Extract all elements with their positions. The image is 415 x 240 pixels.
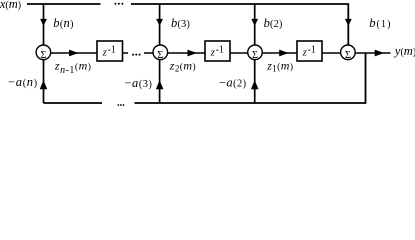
svg-text:x(m): x(m)	[0, 0, 21, 11]
svg-text:z: z	[302, 48, 307, 59]
delay block D1 z^-1	[97, 41, 123, 61]
svg-text:z1(m): z1(m)	[266, 59, 293, 74]
wire b(3) branch vertical	[159, 4, 161, 45]
wire feedback vertical into U1	[43, 60, 45, 103]
arrowhead right on wire U1-D1	[69, 50, 79, 57]
svg-text:Σ: Σ	[157, 50, 163, 61]
arrowhead b(3) down	[156, 19, 163, 26]
svg-text:Σ: Σ	[40, 50, 46, 61]
wire D1 output stub	[123, 52, 129, 54]
svg-text:z2(m): z2(m)	[169, 59, 196, 74]
arrowhead -a(n) up	[40, 80, 48, 89]
svg-text:z: z	[210, 48, 215, 59]
arrowhead right on wire U2-D2	[188, 50, 198, 57]
wire D3 to summer U4	[322, 52, 341, 54]
delay block D2 z^-1	[205, 41, 230, 61]
arrowhead b(n) down	[40, 19, 47, 26]
summer U3 (sigma)	[248, 45, 263, 60]
arrowhead -a(2) up	[251, 80, 259, 89]
wire top horizontal segment left	[27, 3, 101, 5]
arrowhead right on output wire	[375, 50, 385, 57]
svg-text:b(2): b(2)	[264, 16, 283, 30]
wire U4 to output y(m)	[355, 52, 390, 54]
wire into summer U2	[144, 52, 153, 54]
arrowhead b(1) down	[345, 19, 352, 26]
svg-text:−a(2): −a(2)	[219, 76, 247, 90]
svg-text:Σ: Σ	[252, 50, 258, 61]
middle ellipsis dots	[132, 54, 141, 56]
svg-text:−a(n): −a(n)	[8, 75, 38, 89]
arrowhead -a(3) up	[156, 80, 164, 89]
wire top horizontal segment right with corner into b(1) branch	[131, 4, 348, 45]
svg-text:Σ: Σ	[345, 50, 351, 61]
summer U1 (sigma)	[36, 45, 51, 60]
arrowhead right on wire U3-D3	[279, 50, 289, 57]
svg-text:y(m): y(m)	[393, 44, 415, 58]
wire U3 to delay D3	[262, 52, 297, 54]
wire b(n) branch vertical	[43, 4, 45, 45]
wire U1 to delay D1	[51, 52, 97, 54]
wire bottom ellipsis dots	[117, 104, 124, 106]
svg-text:-1: -1	[308, 45, 316, 56]
wire D2 to summer U3	[230, 52, 248, 54]
svg-text:b(n): b(n)	[53, 16, 73, 30]
svg-text:−a(3): −a(3)	[124, 76, 152, 90]
wire feedback vertical into U3	[254, 60, 256, 103]
svg-text:-1: -1	[108, 45, 116, 56]
wire U2 to delay D2	[168, 52, 205, 54]
summer U4 (sigma)	[341, 45, 356, 60]
arrowhead b(2) down	[251, 19, 258, 26]
summer U2 (sigma)	[153, 45, 168, 60]
wire feedback bottom left segment with corner	[44, 102, 103, 104]
svg-text:z: z	[102, 48, 107, 59]
delay block D3 z^-1	[297, 41, 322, 61]
wire feedback bottom right segment with corner up to output node	[135, 53, 366, 103]
svg-text:b(3): b(3)	[171, 16, 190, 30]
wire top ellipsis dots	[114, 3, 123, 5]
svg-text:-1: -1	[216, 45, 224, 56]
svg-text:b(1): b(1)	[369, 16, 391, 30]
wire b(2) branch vertical	[254, 4, 256, 45]
wire feedback vertical into U2	[159, 60, 161, 103]
